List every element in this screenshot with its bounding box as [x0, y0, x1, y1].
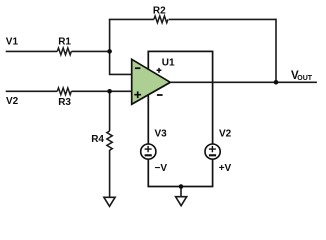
svg-text:R2: R2	[153, 6, 166, 17]
resistor R1	[57, 48, 71, 55]
voltage source V3	[141, 144, 156, 159]
svg-text:V1: V1	[6, 37, 19, 48]
svg-text:−V: −V	[155, 163, 168, 174]
wire ground stub	[180, 187, 182, 197]
wire node A to inverting input	[110, 51, 132, 74]
node A junction dot	[107, 49, 112, 54]
voltage source V2	[205, 144, 220, 159]
svg-text:R3: R3	[58, 97, 71, 108]
node B junction dot	[107, 89, 112, 94]
svg-text:V3: V3	[155, 129, 168, 140]
wire node A up to feedback loop	[109, 19, 111, 52]
resistor R4	[107, 131, 112, 150]
svg-text:V2: V2	[219, 129, 232, 140]
wire feedback top left segment	[109, 18, 154, 20]
ground (supply)	[176, 197, 187, 206]
ground (below R4)	[104, 197, 115, 206]
svg-text:U1: U1	[162, 58, 175, 69]
wire output	[171, 81, 317, 83]
wire feedback top right segment	[169, 18, 276, 20]
wire V1 input lead	[6, 50, 58, 52]
svg-text:R1: R1	[58, 36, 71, 47]
supply minus marker	[157, 94, 163, 96]
wire V2 input lead	[6, 90, 58, 92]
wire R3 to non-inverting input	[71, 90, 131, 92]
svg-text:+V: +V	[219, 163, 232, 174]
wire R4 to ground	[109, 150, 111, 197]
wire node B down to R4	[109, 91, 111, 131]
wire R1 to node A	[71, 50, 109, 52]
svg-text:R4: R4	[91, 134, 104, 145]
inverting input minus sign	[135, 67, 141, 69]
resistor R3	[57, 88, 71, 95]
supply plus marker	[157, 68, 162, 73]
non-inverting input plus sign	[134, 91, 141, 98]
supply ground junction dot	[179, 184, 184, 189]
svg-text:V2: V2	[6, 96, 19, 107]
resistor R2	[154, 16, 168, 23]
svg-text:OUT: OUT	[297, 75, 313, 82]
wire feedback right drop to output node	[275, 19, 277, 83]
output node junction dot	[274, 80, 279, 85]
op-amp supply box	[148, 51, 212, 186]
op-amp U1	[132, 59, 171, 104]
